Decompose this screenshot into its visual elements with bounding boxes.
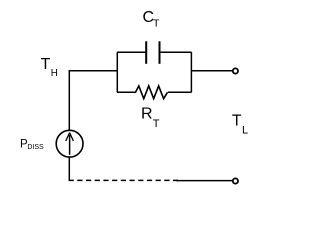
- svg-text:T: T: [41, 56, 51, 73]
- wire: [177, 180, 233, 182]
- terminal T_L: [233, 68, 238, 73]
- wire: [117, 51, 146, 53]
- wire: [159, 51, 191, 53]
- svg-text:L: L: [242, 125, 248, 137]
- svg-text:T: T: [153, 118, 160, 130]
- svg-text:DISS: DISS: [27, 144, 44, 151]
- wire: [117, 91, 136, 93]
- svg-text:R: R: [141, 105, 153, 122]
- wire: [190, 52, 192, 92]
- terminal: [233, 178, 238, 183]
- svg-text:T: T: [232, 113, 242, 130]
- wire: [191, 70, 232, 72]
- wire: [116, 52, 118, 92]
- svg-text:T: T: [153, 18, 160, 30]
- resistor R_T: [136, 86, 168, 99]
- capacitor C_T: [146, 41, 159, 64]
- wire: [68, 70, 70, 131]
- wire: [168, 91, 192, 93]
- svg-text:H: H: [51, 68, 58, 79]
- wire: [69, 179, 178, 181]
- wire: [68, 157, 70, 181]
- wire: [69, 70, 118, 72]
- current source P1: [56, 130, 83, 157]
